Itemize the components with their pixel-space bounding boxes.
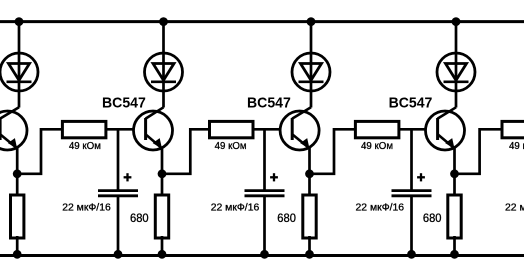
svg-text:22 мкФ/16: 22 мкФ/16 <box>356 201 405 213</box>
svg-text:49 кОм: 49 кОм <box>509 140 524 152</box>
svg-text:680: 680 <box>130 213 149 225</box>
svg-text:BC547: BC547 <box>247 94 291 111</box>
svg-text:22 мкФ/16: 22 мкФ/16 <box>211 201 260 213</box>
svg-text:49 кОм: 49 кОм <box>69 140 101 152</box>
svg-text:680: 680 <box>277 213 296 225</box>
svg-text:BC547: BC547 <box>389 94 433 111</box>
svg-text:22 мкФ/16: 22 мкФ/16 <box>62 201 111 213</box>
svg-text:680: 680 <box>423 213 442 225</box>
svg-text:49 кОм: 49 кОм <box>361 140 393 152</box>
svg-text:22 мкФ/16: 22 мкФ/16 <box>505 201 524 213</box>
svg-text:49 кОм: 49 кОм <box>215 140 247 152</box>
svg-text:BC547: BC547 <box>102 94 146 111</box>
